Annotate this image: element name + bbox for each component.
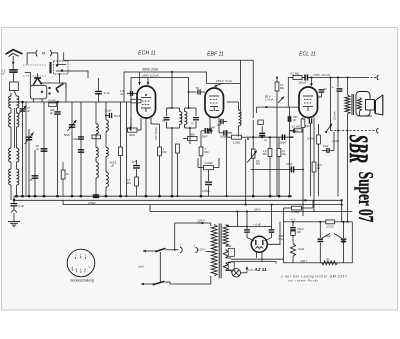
wire vertical k5 bbox=[245, 139, 247, 205]
svg-text:MΩ: MΩ bbox=[205, 151, 209, 154]
svg-text:185V 0,2mA: 185V 0,2mA bbox=[142, 74, 159, 78]
capacitor elko x2 bbox=[343, 222, 345, 238]
svg-text:50nF: 50nF bbox=[305, 125, 311, 128]
socket diagram circle bbox=[67, 249, 95, 277]
wire ECH anode feed bbox=[139, 72, 141, 85]
svg-text:Sockelschaltung: Sockelschaltung bbox=[70, 279, 93, 283]
wire vertical k4 bbox=[226, 135, 228, 196]
capacitor 8uF output bbox=[337, 78, 339, 88]
contact selector 1 bbox=[180, 247, 182, 252]
wire AVC rail bbox=[11, 101, 131, 103]
capacitor 5nF to ground bbox=[13, 200, 15, 203]
svg-text:TA: TA bbox=[41, 52, 46, 56]
coil osc grid bbox=[95, 102, 97, 124]
wire chassis bus 1 bbox=[14, 195, 292, 197]
capacitor 1uF bbox=[136, 160, 138, 165]
svg-text:MΩ: MΩ bbox=[256, 163, 260, 166]
resistor 172ohm bbox=[326, 220, 335, 224]
resistor osc bbox=[92, 135, 101, 139]
ground main bbox=[8, 221, 20, 223]
wire chassis bus 2 bbox=[14, 199, 342, 201]
svg-text:MΩ: MΩ bbox=[282, 153, 286, 156]
wire box to coil bbox=[14, 91, 17, 97]
capacitor 50uF cathode bbox=[318, 96, 322, 98]
capacitor 100pF bbox=[223, 130, 225, 135]
svg-text:50nF: 50nF bbox=[202, 136, 208, 139]
capacitor 6nF a bbox=[246, 227, 248, 230]
resistor 2M af bbox=[204, 166, 214, 170]
transformer heater 1 bbox=[223, 250, 228, 259]
svg-text:185 V: 185 V bbox=[254, 208, 261, 212]
coil IFT1 secondary bbox=[184, 108, 186, 112]
wire vertical k1 bbox=[25, 102, 27, 196]
capacitor EBF grid bbox=[197, 89, 199, 94]
svg-text:0,05µF: 0,05µF bbox=[202, 190, 210, 193]
speaker frame bbox=[356, 92, 370, 117]
capacitor 0.05uF af bbox=[208, 170, 210, 181]
switch blade b bbox=[38, 78, 42, 84]
wire EBF anode bbox=[207, 83, 241, 85]
svg-text:3,5 mA: 3,5 mA bbox=[333, 111, 337, 120]
wire TA right down bbox=[58, 53, 66, 65]
node antenna bus bbox=[13, 199, 15, 201]
wire OT to PSU bbox=[347, 114, 349, 222]
wire speaker bottom bbox=[360, 111, 373, 116]
node avc1 bbox=[21, 101, 23, 103]
capacitor 50nF EBF bbox=[208, 128, 210, 133]
svg-text:EBF 11: EBF 11 bbox=[207, 51, 224, 57]
wire IFT1 sec bottom bbox=[189, 128, 191, 140]
svg-text:300V 2mA: 300V 2mA bbox=[142, 68, 159, 72]
svg-text:AZ 11: AZ 11 bbox=[253, 267, 267, 272]
svg-text:20µF: 20µF bbox=[323, 145, 329, 148]
wire IFT1 anode bbox=[171, 72, 173, 108]
connector NFB bbox=[377, 128, 379, 133]
wire ECH grid bbox=[127, 93, 137, 95]
resistor 1M AGC bbox=[159, 124, 161, 147]
switch wafer box bbox=[30, 85, 47, 99]
wire wafer up bbox=[25, 73, 30, 87]
wire ECH pin down bbox=[150, 118, 152, 124]
resistor osc divider bbox=[120, 102, 122, 147]
wire switch to osc bbox=[41, 83, 66, 88]
wire switch link bbox=[23, 64, 46, 66]
capacitor 20uF bbox=[326, 148, 328, 153]
svg-text:mA: mA bbox=[120, 92, 124, 96]
coil osc anode 1 bbox=[105, 102, 107, 120]
capacitor 6nF b bbox=[271, 227, 273, 230]
transformer heater 2 bbox=[223, 263, 228, 271]
coil osc anode 2 bbox=[106, 148, 108, 157]
switch blade a bbox=[33, 78, 37, 85]
wire mains to contact bbox=[166, 249, 179, 251]
switch tone bbox=[326, 124, 332, 133]
coil antenna s3 bbox=[17, 148, 19, 162]
svg-text:50 pF: 50 pF bbox=[114, 115, 121, 118]
tube ECH11 envelope bbox=[137, 86, 156, 118]
coil L3 bbox=[9, 148, 11, 162]
transformer tap wires bbox=[226, 245, 231, 247]
capacitor 2nF bbox=[220, 119, 222, 124]
switch crossbar bbox=[34, 77, 41, 79]
svg-text:Feld: Feld bbox=[299, 247, 305, 251]
transformer secondary HT bbox=[223, 225, 228, 246]
wire switch feed bbox=[56, 71, 88, 78]
tube ECL11 electrodes bbox=[303, 95, 313, 97]
svg-text:0,7MΩ: 0,7MΩ bbox=[292, 210, 300, 214]
svg-text:170V, 20 mA: 170V, 20 mA bbox=[313, 73, 330, 77]
wire TA left down bbox=[26, 53, 28, 65]
svg-text:50nF: 50nF bbox=[210, 127, 216, 130]
svg-text:0,1 MΩ: 0,1 MΩ bbox=[292, 126, 300, 129]
svg-text:1µF: 1µF bbox=[132, 160, 137, 164]
wire EBF pins bbox=[209, 118, 211, 132]
svg-text:8µF: 8µF bbox=[326, 234, 331, 238]
svg-text:MΩ: MΩ bbox=[280, 87, 284, 90]
switch arrow right bbox=[56, 84, 64, 89]
resistor 2M ECH bbox=[130, 118, 132, 130]
capacitor 250pF rail bbox=[304, 75, 306, 81]
IF transformer 1 frame bbox=[167, 107, 180, 109]
resistor 0.7M bias bbox=[284, 207, 292, 209]
resistor 0.5M rail bbox=[293, 76, 302, 80]
capacitor 24pF bbox=[80, 102, 82, 196]
coil antenna primary bbox=[17, 96, 19, 108]
wire coupling bbox=[289, 107, 291, 196]
wire ECL pins bbox=[302, 118, 304, 120]
capacitor 1nF det bbox=[261, 126, 263, 132]
svg-text:MΩ: MΩ bbox=[127, 182, 131, 185]
resistor 0.1M tone bbox=[321, 97, 323, 135]
capacitor elko x1 bbox=[319, 222, 321, 238]
svg-text:pF: pF bbox=[36, 147, 39, 151]
svg-text:1 nF: 1 nF bbox=[104, 91, 110, 95]
wire heater lines bbox=[231, 258, 284, 260]
capacitor 300pF bbox=[57, 102, 59, 111]
wire AZ11 output bbox=[267, 222, 280, 245]
wire to ground bbox=[13, 206, 15, 209]
resistor 0.1M c bbox=[295, 129, 303, 132]
svg-text:275pF: 275pF bbox=[87, 201, 96, 205]
wire screen rail bbox=[257, 107, 299, 113]
variable capacitor tuning 1 bbox=[28, 129, 30, 196]
svg-text:1,4 mA: 1,4 mA bbox=[265, 98, 274, 102]
svg-text:0,1µ: 0,1µ bbox=[279, 239, 284, 241]
svg-text:ECL 11: ECL 11 bbox=[299, 52, 316, 58]
TA input bbox=[27, 52, 35, 54]
wire vertical k2 bbox=[126, 102, 128, 196]
trimmer 27pF bbox=[22, 102, 24, 196]
wire B+ down bbox=[337, 131, 339, 197]
coil field Feld bbox=[290, 244, 295, 257]
wire HT top bbox=[229, 225, 272, 227]
capacitor 25pF bbox=[34, 150, 36, 196]
coil antenna s2 bbox=[17, 113, 19, 127]
svg-text:180 V, 5 mA: 180 V, 5 mA bbox=[216, 79, 232, 83]
wire TA audio line bbox=[64, 52, 254, 60]
speaker cone bbox=[374, 101, 376, 114]
svg-text:nF: nF bbox=[1, 72, 5, 76]
capacitor 275pF bbox=[93, 194, 99, 196]
capacitor 50nF det bbox=[204, 128, 206, 134]
coil IFT2 bbox=[238, 102, 240, 110]
wire IFT1 bottom bbox=[171, 128, 173, 196]
svg-text:0,5µF: 0,5µF bbox=[286, 163, 293, 166]
wire coil core bbox=[14, 108, 16, 148]
potentiometer volume bbox=[251, 149, 255, 158]
connector osc bbox=[130, 126, 132, 131]
resistor 0.5M af bbox=[135, 177, 139, 186]
logo Super 07 bbox=[354, 172, 378, 223]
resistor 12.5k bbox=[313, 122, 315, 162]
capacitor padder bbox=[43, 102, 45, 196]
tube AZ11 anodes bbox=[255, 240, 257, 245]
capacitor 1nF bbox=[98, 78, 100, 91]
transformer tap box 1 bbox=[228, 248, 234, 256]
svg-text:100µF: 100µF bbox=[280, 142, 287, 145]
wire TA to switch bbox=[59, 73, 61, 83]
wire vertical k7 bbox=[310, 123, 312, 196]
capacitor 500pF bbox=[287, 116, 289, 122]
transformer primary bbox=[211, 225, 217, 277]
svg-text:0,1MΩ: 0,1MΩ bbox=[233, 141, 241, 144]
svg-text:5 nF: 5 nF bbox=[19, 204, 25, 208]
coil IFT1 primary bbox=[180, 112, 182, 125]
capacitor 8uF psu bbox=[292, 222, 294, 227]
logo SBR bbox=[344, 135, 374, 163]
svg-text:6,3V: 6,3V bbox=[249, 270, 254, 272]
svg-text:250 pF: 250 pF bbox=[299, 80, 307, 84]
wire feedback dashed bbox=[330, 78, 332, 131]
svg-text:mit rotem Punkt: mit rotem Punkt bbox=[288, 279, 319, 283]
wire ECH cathode down bbox=[145, 118, 147, 196]
tube EBF11 electrodes bbox=[209, 95, 219, 97]
svg-text:NSF: NSF bbox=[279, 236, 284, 238]
coil osc fb bbox=[96, 148, 98, 158]
wire mains lead 1 bbox=[143, 250, 152, 252]
capacitor 100uF det bbox=[281, 134, 283, 140]
svg-text:172 Ω: 172 Ω bbox=[327, 225, 334, 229]
svg-text:kΩ: kΩ bbox=[317, 167, 320, 170]
wire detector line bbox=[246, 136, 289, 138]
speaker driver bbox=[366, 100, 375, 111]
wire cap feeds bbox=[237, 212, 239, 227]
transformer core bbox=[218, 224, 220, 279]
wire vertical k3 bbox=[177, 153, 179, 196]
capacitor 50pF osc bbox=[108, 113, 110, 118]
wire mains bottom bbox=[165, 276, 211, 284]
wire IFT1 sec top bbox=[189, 78, 197, 93]
wire af join bbox=[197, 158, 199, 168]
wire mains lead 2 bbox=[141, 283, 150, 285]
svg-text:53V 4,6mA: 53V 4,6mA bbox=[154, 127, 158, 140]
transformer tap box 2 bbox=[228, 262, 234, 270]
lamp dial bbox=[232, 269, 241, 278]
tube ECH11 electrodes bbox=[141, 97, 151, 99]
svg-text:0,1MΩ: 0,1MΩ bbox=[290, 130, 298, 133]
svg-text:MΩ: MΩ bbox=[263, 153, 267, 156]
node psu top bbox=[305, 199, 307, 201]
wire AZ11 pins bbox=[256, 252, 258, 258]
svg-text:SBR: SBR bbox=[344, 135, 374, 163]
svg-text:110 V: 110 V bbox=[198, 247, 206, 251]
capacitor IFT1 primary bbox=[164, 117, 170, 119]
coil L2 bbox=[9, 113, 11, 127]
resistor antenna box bbox=[10, 82, 19, 91]
svg-text:Licht: Licht bbox=[138, 265, 144, 269]
svg-text:220 v: 220 v bbox=[300, 259, 308, 263]
resistor 7M bbox=[188, 137, 198, 141]
wire ECH screen feed bbox=[147, 78, 149, 86]
wire psu right feeds bbox=[341, 200, 343, 222]
wire 300V rail bbox=[124, 72, 207, 102]
resistor 1M IFT bbox=[200, 131, 202, 147]
transformer output secondary bbox=[357, 98, 361, 112]
label x uF bbox=[322, 234, 330, 239]
connector top right bbox=[377, 75, 379, 80]
svg-text:50pF: 50pF bbox=[64, 134, 70, 137]
wire TA down bbox=[252, 60, 254, 118]
svg-text:7MΩ: 7MΩ bbox=[189, 134, 194, 137]
resistor 1M vol bbox=[269, 137, 271, 148]
wire bus 3 bbox=[63, 204, 342, 206]
wire caps to rectifier bbox=[247, 238, 254, 241]
IF transformer 1 core bbox=[181, 112, 183, 124]
wire tap 220 bbox=[175, 223, 211, 250]
wire OT feed bbox=[347, 78, 349, 96]
node avc2 bbox=[56, 101, 58, 103]
switch mains 1 bbox=[156, 248, 166, 251]
capacitor IFT1 secondary bbox=[195, 108, 197, 116]
antenna bbox=[6, 50, 23, 55]
resistor 0.5M screen bbox=[276, 78, 278, 83]
switch mains 2 bbox=[154, 281, 165, 284]
transformer output core bbox=[351, 94, 353, 115]
node bus c bbox=[145, 195, 147, 197]
svg-text:pF: pF bbox=[50, 111, 53, 115]
wire 185V rail bbox=[131, 78, 189, 129]
node bus b bbox=[71, 195, 73, 197]
wire ECL anode bbox=[311, 78, 313, 87]
wire right rail bbox=[288, 78, 293, 108]
tube ECL11 envelope bbox=[299, 87, 318, 118]
capacitor 2.5nF antenna bbox=[12, 65, 14, 69]
svg-text:(2 MΩ): (2 MΩ) bbox=[205, 161, 213, 165]
wire bus 4 bbox=[150, 211, 352, 213]
svg-text:2MΩ: 2MΩ bbox=[129, 133, 135, 137]
coil antenna s4 bbox=[17, 169, 19, 185]
potentiometer screen bbox=[278, 97, 284, 104]
wire NFB line bbox=[331, 130, 378, 132]
tube AZ11 rectifier bbox=[251, 236, 267, 252]
tube EBF11 envelope bbox=[205, 88, 224, 118]
svg-text:Super 07: Super 07 bbox=[354, 172, 378, 223]
wire IFT2 feed bbox=[240, 60, 242, 110]
svg-text:0,5 MΩ: 0,5 MΩ bbox=[291, 71, 299, 75]
svg-text:MΩ: MΩ bbox=[163, 151, 167, 154]
svg-text:µF: µF bbox=[111, 165, 114, 168]
resistor 0.1M ECL grid bbox=[301, 119, 305, 128]
coil L4 bbox=[9, 169, 11, 185]
wire antenna to coil box bbox=[12, 72, 14, 82]
contact selector 2 bbox=[196, 247, 198, 252]
phono jack bar bbox=[50, 62, 52, 73]
capacitor 50nF ECL bbox=[308, 118, 310, 123]
coil L1 bbox=[9, 96, 11, 108]
switch box dashed bbox=[54, 61, 69, 74]
wire lamp bbox=[230, 271, 233, 273]
resistor 0.1M det bbox=[232, 135, 242, 139]
resistor 0.1M vol bbox=[278, 137, 280, 148]
variable capacitor osc bbox=[71, 102, 73, 196]
svg-text:pF: pF bbox=[27, 109, 30, 113]
switch mains link bbox=[159, 252, 161, 283]
transformer output primary bbox=[345, 95, 350, 114]
connector det bbox=[293, 128, 295, 133]
svg-text:220 V: 220 V bbox=[197, 219, 206, 223]
node bus a bbox=[21, 195, 23, 197]
svg-text:~ 6 nF: ~ 6 nF bbox=[253, 222, 261, 226]
capacitor 0.5uF af bbox=[251, 169, 292, 171]
wire osc top bbox=[65, 84, 67, 102]
svg-text:10 µF: 10 µF bbox=[105, 109, 112, 113]
svg-text:ECH 11: ECH 11 bbox=[138, 51, 156, 57]
wire PSU box bbox=[284, 222, 353, 263]
